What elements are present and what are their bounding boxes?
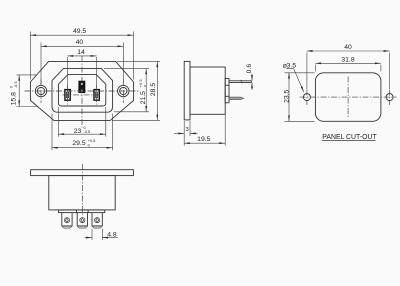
svg-text:-0.5: -0.5 xyxy=(13,81,18,88)
dimension 40 (cutout) xyxy=(307,51,390,89)
mounting hole left inner xyxy=(37,87,44,94)
svg-text:14: 14 xyxy=(77,49,85,56)
cutout hole right xyxy=(386,94,393,101)
front view flange outline xyxy=(30,61,133,120)
dimension 21.5 +0.5/0 (right inner, vertical) xyxy=(104,69,149,112)
front view recess opening xyxy=(58,75,105,106)
bottom body xyxy=(49,176,115,210)
dimension 29.5 +0.5/0 xyxy=(52,114,113,151)
svg-text:0.6: 0.6 xyxy=(246,64,253,74)
svg-text:4.8: 4.8 xyxy=(107,231,117,238)
svg-text:28.5: 28.5 xyxy=(150,83,157,96)
pin L (left) xyxy=(64,89,71,101)
bottom step bar xyxy=(59,210,105,213)
terminal 3 xyxy=(92,213,102,228)
svg-text:15.8: 15.8 xyxy=(11,92,18,105)
dimension 40 (front) xyxy=(41,43,123,85)
svg-text:40: 40 xyxy=(76,39,84,46)
svg-text:49.5: 49.5 xyxy=(73,28,86,35)
dimension 49.5 xyxy=(30,32,133,80)
dimension 4.8 xyxy=(85,229,118,240)
side pin flat (terminal, 0.6 thick) xyxy=(229,80,251,82)
terminal 1 xyxy=(62,213,72,228)
side body xyxy=(190,67,225,114)
svg-text:PANEL CUT-OUT: PANEL CUT-OUT xyxy=(322,134,377,141)
side rear step xyxy=(225,79,229,103)
svg-text:19.5: 19.5 xyxy=(197,136,210,143)
svg-text:31.8: 31.8 xyxy=(341,56,354,63)
svg-text:29.5: 29.5 xyxy=(72,140,85,147)
side flange plate xyxy=(184,61,190,120)
mounting hole right outer xyxy=(118,85,129,96)
pin E (earth, top center) xyxy=(78,81,85,93)
pin N (right) xyxy=(93,89,100,101)
svg-text:23.5: 23.5 xyxy=(284,89,291,102)
dimension 23 0/-0.5 xyxy=(58,107,105,137)
dimension 19.5 xyxy=(184,115,225,146)
mounting hole left outer xyxy=(35,85,46,96)
dimension 31.8 xyxy=(315,63,381,71)
cutout hole left xyxy=(303,94,310,101)
cutout centerlines xyxy=(300,77,397,118)
bottom view centerline xyxy=(81,164,83,217)
dimension dia 3.5 leader xyxy=(286,69,304,92)
dimension 14 xyxy=(68,56,97,88)
bottom flange bar xyxy=(31,170,134,176)
svg-text:⌀3.5: ⌀3.5 xyxy=(283,63,297,70)
front view recess lip xyxy=(52,69,113,113)
cutout rounded rect xyxy=(315,73,381,122)
SIDE VIEW xyxy=(184,61,251,120)
centerlines front view xyxy=(25,56,141,128)
svg-text:40: 40 xyxy=(344,44,352,51)
dimension 28.5 (right outer, vertical) xyxy=(112,61,160,120)
dimension 0.6 xyxy=(251,74,253,90)
svg-text:-0.5: -0.5 xyxy=(84,129,91,134)
BOTTOM VIEW xyxy=(31,170,134,213)
svg-text:21.5: 21.5 xyxy=(140,91,147,104)
side pin round (lower) xyxy=(229,97,244,100)
svg-text:23: 23 xyxy=(74,128,82,135)
terminal 2 xyxy=(77,213,87,228)
mounting hole right inner xyxy=(120,87,127,94)
dimension 3 (side flange thickness) xyxy=(174,121,198,136)
svg-text:3: 3 xyxy=(186,127,189,133)
dimension 15.8 0/-0.5 (left, vertical) xyxy=(17,75,38,107)
dimension 23.5 (cutout, vertical) xyxy=(285,73,315,122)
